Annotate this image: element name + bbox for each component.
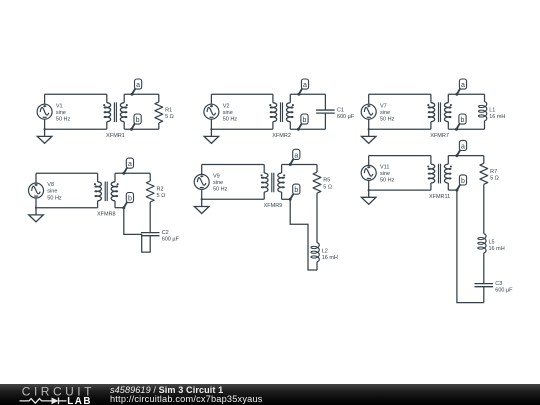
junction [368, 189, 370, 191]
wire [97, 173, 99, 182]
svg-text:R15 Ω: R15 Ω [165, 107, 174, 120]
wire [124, 128, 159, 130]
wire [123, 94, 125, 103]
wire [282, 164, 317, 166]
svg-text:a: a [136, 82, 140, 89]
resistor R7 [480, 163, 488, 184]
footer bar [0, 384, 540, 405]
svg-text:b: b [294, 187, 298, 194]
wire [448, 128, 484, 130]
wire [483, 184, 485, 234]
wire [448, 93, 484, 95]
wire [369, 93, 431, 95]
wire [368, 119, 370, 129]
transformer XFMR9 [262, 173, 285, 193]
wire [448, 189, 457, 191]
wire [36, 172, 98, 174]
capacitor C3 [475, 284, 494, 287]
wire [447, 183, 449, 190]
svg-text:R55 Ω: R55 Ω [323, 178, 332, 191]
svg-text:R25 Ω: R25 Ω [157, 187, 166, 200]
resistor R1 [155, 102, 163, 123]
wire [115, 172, 150, 174]
svg-text:V7sine50 Hz: V7sine50 Hz [380, 103, 395, 122]
circuit 1: V1 / XFMR1 / R1 [37, 79, 174, 143]
resistor R2 [146, 181, 154, 202]
svg-text:V2sine50 Hz: V2sine50 Hz [223, 103, 238, 122]
svg-text:LAB: LAB [67, 396, 92, 405]
wire [289, 94, 291, 103]
svg-text:C1600 µF: C1600 µF [337, 107, 355, 120]
wire [483, 156, 485, 164]
junction [210, 128, 212, 130]
svg-text:b: b [128, 196, 132, 203]
svg-text:C2600 µF: C2600 µF [162, 230, 180, 243]
circuit 5: V9 / XFMR9 / R5 / L2 [194, 149, 338, 270]
svg-text:b: b [136, 117, 140, 124]
wire [483, 253, 485, 284]
wire [430, 183, 432, 190]
wire [45, 128, 107, 130]
wire [272, 122, 274, 130]
node b [130, 114, 141, 131]
wire [447, 94, 449, 103]
ground [361, 190, 376, 204]
wire [35, 173, 37, 183]
circuit 6: V11 / XFMR11 / R7 / L5 / C3 [361, 140, 513, 302]
wire [106, 122, 108, 130]
wire [368, 180, 370, 190]
wire [369, 189, 431, 191]
wire [35, 198, 37, 208]
wire [158, 123, 160, 129]
circuit 3: V7 / XFMR7 / L1 [361, 79, 505, 143]
wire [281, 165, 283, 174]
wire [36, 207, 98, 209]
ground [194, 199, 209, 213]
wire [447, 156, 449, 165]
wire [210, 119, 212, 129]
voltage source V8 [29, 183, 44, 198]
wire [368, 156, 370, 166]
svg-text:XFMR11: XFMR11 [429, 194, 450, 200]
wire [211, 128, 273, 130]
voltage source V2 [204, 104, 219, 119]
junction [44, 128, 46, 130]
ground [204, 129, 219, 143]
wire [289, 122, 291, 130]
node b [455, 114, 466, 131]
svg-text:L216 mH: L216 mH [322, 248, 338, 261]
wire [114, 201, 116, 208]
voltage source V7 [361, 104, 376, 119]
inductor L5 [478, 234, 486, 253]
wire [114, 173, 116, 182]
node b [455, 175, 466, 192]
inductor L2 [311, 243, 319, 262]
wire [124, 208, 150, 252]
node a [131, 79, 142, 96]
wire [483, 287, 485, 303]
svg-text:b: b [461, 178, 465, 185]
wire [281, 192, 283, 199]
wire [45, 93, 107, 95]
circuit 2: V2 / XFMR2 / C1 [204, 79, 355, 143]
wire [210, 94, 212, 104]
svg-text:a: a [128, 161, 132, 168]
svg-text:a: a [461, 82, 465, 89]
capacitor C1 [316, 110, 335, 113]
svg-text:L116 mH: L116 mH [489, 107, 505, 120]
voltage source V9 [194, 174, 209, 189]
wire [115, 207, 124, 209]
node b [297, 114, 308, 131]
wire [158, 94, 160, 102]
wire [484, 94, 486, 102]
wire [123, 122, 125, 130]
transformer XFMR7 [428, 102, 451, 122]
ground [29, 208, 44, 222]
svg-text:V9sine50 Hz: V9sine50 Hz [213, 174, 228, 193]
svg-text:V8sine50 Hz: V8sine50 Hz [47, 182, 62, 201]
resistor R5 [313, 172, 321, 193]
junction [35, 207, 37, 209]
wire [484, 121, 486, 130]
wire [272, 94, 274, 103]
transformer XFMR8 [95, 182, 118, 202]
svg-text:XFMR9: XFMR9 [264, 203, 283, 209]
CircuitLab logo [20, 385, 95, 405]
wire [369, 128, 431, 130]
wire [149, 202, 151, 233]
transformer XFMR1 [104, 102, 127, 122]
wire [106, 94, 108, 103]
wire [211, 93, 273, 95]
svg-text:b: b [303, 117, 307, 124]
wire [316, 262, 318, 270]
wire [263, 192, 265, 199]
svg-text:L516 mH: L516 mH [489, 239, 505, 252]
ground [361, 129, 376, 143]
wire [324, 113, 326, 129]
wire [290, 128, 325, 130]
wire [316, 193, 318, 243]
wire [457, 190, 484, 303]
node a [122, 158, 133, 175]
wire [149, 173, 151, 181]
junction [201, 198, 203, 200]
wire [430, 122, 432, 130]
wire [263, 165, 265, 174]
node a [455, 79, 466, 96]
svg-text:XFMR1: XFMR1 [106, 133, 125, 139]
wire [124, 93, 159, 95]
wire [290, 93, 325, 95]
wire [316, 165, 318, 173]
wire [202, 198, 265, 200]
wire [202, 164, 265, 166]
svg-text:XFMR2: XFMR2 [272, 133, 291, 139]
capacitor C2 [141, 233, 160, 236]
node b [122, 193, 133, 210]
svg-text:XFMR7: XFMR7 [430, 133, 449, 139]
wire [368, 94, 370, 104]
transformer XFMR11 [428, 164, 451, 184]
wire [369, 155, 431, 157]
svg-text:a: a [294, 152, 298, 159]
wire [430, 94, 432, 103]
wire [282, 198, 291, 200]
node a [289, 149, 300, 166]
wire [97, 201, 99, 208]
node b [289, 184, 300, 201]
svg-text:V1sine50 Hz: V1sine50 Hz [56, 103, 71, 122]
ground [37, 129, 52, 143]
wire [201, 165, 203, 175]
svg-text:R75 Ω: R75 Ω [490, 169, 499, 182]
inductor L1 [478, 102, 486, 121]
wire [324, 94, 326, 110]
wire [430, 156, 432, 165]
circuit 4: V8 / XFMR8 / R2 / C2 [29, 158, 180, 252]
node a [455, 140, 466, 157]
junction [368, 128, 370, 130]
wire [44, 94, 46, 104]
node a [297, 79, 308, 96]
wire [448, 155, 484, 157]
svg-text:V11sine50 Hz: V11sine50 Hz [380, 164, 395, 183]
svg-text:C3600 µF: C3600 µF [495, 281, 513, 294]
svg-text:a: a [303, 82, 307, 89]
voltage source V1 [37, 104, 52, 119]
svg-text:b: b [461, 117, 465, 124]
svg-text:a: a [461, 143, 465, 150]
wire [290, 199, 317, 270]
svg-text:http://circuitlab.com/cx7bap35: http://circuitlab.com/cx7bap35xyaus [110, 394, 263, 404]
wire [44, 119, 46, 129]
wire [447, 122, 449, 130]
transformer XFMR2 [270, 102, 293, 122]
svg-text:XFMR8: XFMR8 [97, 212, 116, 218]
voltage source V11 [361, 165, 376, 180]
wire [201, 189, 203, 199]
